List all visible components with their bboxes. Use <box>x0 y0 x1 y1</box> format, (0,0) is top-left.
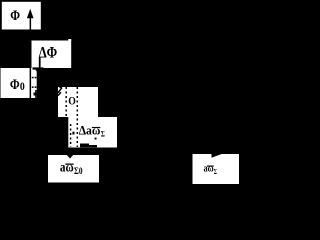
leader foot <box>33 67 44 69</box>
svg-text:ΔΦ: ΔΦ <box>39 44 58 61</box>
dotted vertical line 3 <box>70 124 72 147</box>
x axis arrowhead fragment on box G <box>212 154 224 158</box>
svg-text:0: 0 <box>20 79 25 93</box>
curve fragment at box C top-right <box>35 69 38 71</box>
label box G (a omega sigma) <box>193 154 240 184</box>
svg-text:Σ: Σ <box>101 129 105 139</box>
omega overbar in box E <box>92 127 100 128</box>
label box F (a omega sigma 0) <box>48 155 99 183</box>
vertical axis arrowhead <box>27 9 34 18</box>
svg-text:O: O <box>68 94 76 108</box>
dotted vertical line 1 <box>65 87 67 117</box>
label box D (O) <box>58 87 98 117</box>
label box E (delta a omega sigma) <box>68 117 117 148</box>
curve thick dash right part <box>89 145 97 147</box>
vertical axis line <box>30 17 32 150</box>
hatch stroke 1 <box>58 88 62 93</box>
tick arrowhead on box F <box>67 155 73 159</box>
curve thick dash left part <box>80 144 89 148</box>
hatch stroke 2 <box>58 92 61 95</box>
svg-text:aω: aω <box>60 161 74 176</box>
curve fragment nick at box E top-right <box>95 138 97 140</box>
svg-text:Φ: Φ <box>10 77 20 93</box>
omega overbar in box F <box>65 164 73 165</box>
svg-text:Δaω: Δaω <box>79 123 101 137</box>
dotted leader row 2 in box C <box>32 86 34 88</box>
dotted vertical line 2 <box>76 87 78 147</box>
leader line from delta-Phi <box>39 57 41 67</box>
curve fragment blob at box C bottom-right <box>34 93 37 96</box>
curve fragment at box C right edge <box>35 90 37 98</box>
omega overbar in box G <box>207 166 214 167</box>
curve corner mark in box E <box>72 132 74 135</box>
label box B (delta Phi) <box>32 39 72 68</box>
label box C (Phi0) <box>1 68 37 98</box>
label box A (Phi axis label) <box>2 2 41 30</box>
svg-text:Σ: Σ <box>214 167 217 176</box>
svg-text:aω: aω <box>204 164 214 175</box>
svg-text:Φ: Φ <box>10 8 20 24</box>
svg-text:Σ0: Σ0 <box>74 167 83 177</box>
dotted leader row 1 in box C <box>32 77 34 79</box>
hatch dash in box D corner <box>59 87 61 88</box>
